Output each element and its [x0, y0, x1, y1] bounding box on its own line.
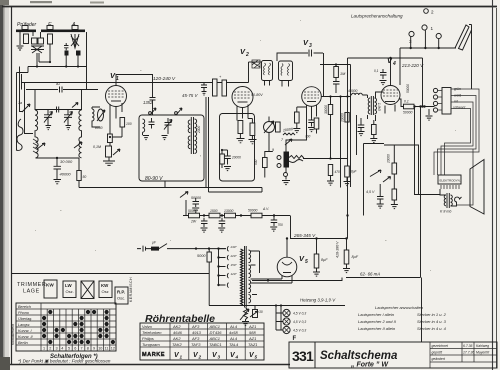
svg-text:Mayerhfr: Mayerhfr	[476, 351, 490, 355]
svg-text:9: 9	[272, 148, 274, 152]
ground inside box 1	[143, 136, 149, 140]
tube V5	[277, 257, 297, 277]
svg-text:Osc.: Osc.	[117, 296, 125, 301]
svg-text:0,1: 0,1	[404, 100, 409, 104]
capacitor V3 pin	[308, 118, 315, 126]
wire V4 plate to top line	[390, 58, 392, 86]
wire long vertical a	[347, 65, 349, 239]
resistor 13000	[225, 213, 236, 218]
title block small table	[430, 342, 497, 368]
svg-text:6: 6	[74, 347, 76, 351]
svg-text:988: 988	[249, 330, 256, 335]
svg-text:1352: 1352	[143, 100, 153, 105]
resistor V2a	[238, 121, 243, 134]
antenna coupling coil	[16, 119, 23, 150]
ground V3 pin	[308, 128, 315, 132]
wire speaker cable 1	[434, 89, 479, 175]
table row labels	[18, 305, 34, 345]
svg-text:213-220 V: 213-220 V	[401, 63, 424, 68]
IF transformer right coils	[195, 119, 197, 153]
ground under V1 stack	[103, 161, 115, 165]
bottom link wire	[36, 158, 80, 166]
wire V4 pins	[385, 105, 395, 114]
svg-text:DT436: DT436	[210, 330, 223, 335]
svg-text:F: F	[293, 336, 297, 342]
IF can 1	[262, 61, 273, 81]
wire long vertical b	[350, 65, 352, 188]
resistor 50	[77, 171, 81, 181]
fuse cartridge E1	[24, 34, 29, 44]
svg-text:LAGE: LAGE	[23, 289, 40, 295]
wire box bottom stub	[164, 181, 166, 188]
wire transformer to V4	[368, 92, 384, 121]
electrolytic small	[345, 166, 350, 177]
svg-text:410-380 V: 410-380 V	[336, 241, 340, 258]
trimmer capacitor 1	[44, 110, 53, 130]
ground tuning	[54, 175, 62, 184]
transformer secondary winding	[249, 250, 251, 303]
svg-text:ABC1: ABC1	[209, 324, 220, 329]
link wire	[35, 109, 82, 111]
potentiometer circle	[264, 117, 275, 138]
coil under V1	[92, 107, 100, 127]
heater bus	[209, 305, 345, 307]
svg-text:Kurzw. II: Kurzw. II	[18, 335, 34, 339]
contact dots row2	[42, 316, 109, 320]
resistor mid b	[372, 125, 377, 135]
switch arrow mid	[285, 139, 292, 145]
tube table MARKE row	[142, 352, 258, 360]
ground inside box 2	[162, 136, 168, 140]
wire L corner mid	[364, 144, 419, 216]
svg-text:120-240 V: 120-240 V	[153, 76, 176, 82]
capacitor bottom	[54, 166, 62, 175]
speaker magnet box	[438, 175, 461, 189]
corner smudge top-left	[0, 0, 9, 5]
svg-text:4646: 4646	[173, 330, 183, 335]
resistor 20000 right	[392, 163, 397, 174]
switch oval M	[95, 109, 105, 130]
resistor 20000 on anode line	[345, 113, 349, 123]
resistor 100 under V1	[120, 118, 125, 128]
choke coil	[352, 93, 363, 95]
svg-text:5: 5	[255, 355, 258, 360]
svg-text:TRIMMER: TRIMMER	[17, 282, 46, 288]
svg-text:Berlin: Berlin	[18, 341, 28, 345]
resistor mains	[207, 252, 211, 262]
svg-text:5: 5	[68, 347, 70, 351]
capacitor block 1	[65, 51, 69, 56]
junction dots mains	[195, 247, 197, 249]
resistor stack b	[106, 146, 112, 157]
svg-text:a1: a1	[56, 82, 60, 86]
svg-text:ELEKTRODYN.: ELEKTRODYN.	[440, 179, 461, 183]
capacitor V3 coupling	[309, 50, 312, 57]
transformer core	[245, 246, 247, 308]
ground mid b	[370, 139, 377, 143]
chassis bottom wire	[12, 273, 210, 275]
oscillator box	[220, 114, 255, 182]
detector switch arrow	[180, 192, 188, 198]
svg-text:8μF: 8μF	[321, 258, 328, 262]
capacitor small	[64, 43, 69, 50]
pilot lamp 1	[283, 309, 306, 316]
resistor V4 output	[404, 104, 415, 109]
capacitor divider 1	[201, 218, 208, 227]
HT line 265-345V	[291, 216, 347, 239]
svg-text:4913: 4913	[192, 330, 202, 335]
ground V4 grid	[380, 81, 387, 85]
svg-text:geprüft: geprüft	[432, 351, 444, 355]
svg-text:Osz: Osz	[102, 289, 109, 294]
jack 3	[409, 31, 414, 36]
svg-text:3: 3	[56, 347, 58, 351]
svg-text:*) Der Punkt ▣ bedeutet : Fede: *) Der Punkt ▣ bedeutet : Feder geschlos…	[18, 359, 111, 364]
svg-text:331: 331	[292, 348, 314, 364]
primary tap arcs	[219, 245, 238, 288]
svg-text:Lautsprecher 2 und II: Lautsprecher 2 und II	[358, 319, 397, 324]
svg-text:Tungsram: Tungsram	[142, 342, 160, 347]
mains plug	[137, 246, 150, 252]
capacitor osc lower	[224, 156, 231, 165]
svg-text:4,5 V: 4,5 V	[366, 190, 375, 194]
svg-text:1: 1	[43, 347, 45, 351]
plug pins	[433, 88, 442, 112]
svg-text:17.7.36: 17.7.36	[463, 351, 474, 355]
junction dot	[109, 136, 111, 138]
svg-text:6.7.36: 6.7.36	[463, 344, 473, 348]
contact dots row3	[42, 322, 109, 326]
ground electrolytic 1	[313, 272, 320, 276]
capacitor det	[193, 198, 200, 207]
svg-text:45-75 V: 45-75 V	[182, 93, 198, 98]
divider chain wire	[183, 200, 290, 216]
svg-text:TAL4: TAL4	[229, 342, 239, 347]
capacitor inside box	[149, 118, 155, 129]
svg-text:3: 3	[309, 43, 312, 49]
trimmer box KW Osz	[99, 281, 112, 298]
svg-text:4: 4	[61, 347, 63, 351]
resistor osc lower	[220, 154, 225, 164]
svg-text:1a: 1a	[18, 101, 22, 105]
ground osc lower	[224, 167, 231, 171]
svg-text:50000: 50000	[188, 209, 198, 213]
svg-text:Lautsprecheranschaltung: Lautsprecheranschaltung	[351, 14, 403, 19]
svg-text:AF3: AF3	[191, 336, 200, 341]
resistor V3 screen	[314, 118, 319, 129]
svg-text:Lautsprecher II allein: Lautsprecher II allein	[358, 326, 396, 331]
capacitor block 2	[76, 51, 81, 56]
svg-text:50-80V: 50-80V	[251, 93, 263, 97]
switch contact C2	[150, 108, 156, 115]
ground divider 1	[201, 228, 208, 232]
variable capacitor inside box	[164, 118, 172, 134]
border frame right inner	[496, 8, 498, 368]
junction dots jacks	[424, 47, 426, 49]
capacitor on V1 link	[150, 98, 156, 116]
electrolytic 8uF no1	[314, 254, 319, 268]
svg-text:0,1: 0,1	[374, 69, 379, 73]
svg-text:470: 470	[335, 170, 341, 174]
svg-text:30 000: 30 000	[60, 159, 73, 164]
wire jacks	[400, 30, 456, 85]
border frame left	[11, 6, 13, 365]
speaker cone	[470, 160, 484, 215]
svg-text:geändert: geändert	[432, 357, 446, 361]
svg-text:KERAMISCH: KERAMISCH	[129, 277, 133, 302]
junction dots terminal area	[36, 61, 79, 68]
trimmer box crossed	[81, 281, 94, 299]
iron core coil L3	[33, 137, 38, 158]
terminal bar left	[16, 30, 36, 33]
IF transformer left coils	[188, 120, 190, 149]
svg-text:Langw.: Langw.	[18, 323, 30, 327]
resistor 50 right	[392, 189, 397, 200]
svg-text:50: 50	[83, 175, 87, 179]
wire bus to V2 top	[238, 62, 249, 83]
resistor 500	[263, 158, 268, 168]
divider pot left	[250, 306, 263, 318]
ground antenna	[17, 32, 24, 50]
border frame right	[492, 0, 494, 370]
svg-text:150°: 150°	[231, 263, 238, 267]
wire resistor to AVC bus	[78, 158, 80, 188]
wire plate line	[320, 64, 351, 66]
wire choke	[351, 95, 368, 98]
svg-text:4,5 V 0,3: 4,5 V 0,3	[293, 320, 306, 324]
svg-text:MARKE: MARKE	[142, 352, 165, 358]
svg-text:8μF: 8μF	[352, 255, 359, 259]
resistor 30000	[330, 97, 332, 159]
border frame top	[2, 6, 497, 8]
resistor 1M	[334, 67, 339, 78]
svg-text:11: 11	[105, 347, 109, 351]
ground mid right a	[377, 204, 384, 208]
resistor 470k	[328, 165, 332, 176]
svg-text:AZ1: AZ1	[248, 324, 256, 329]
svg-text:4x58: 4x58	[229, 330, 238, 335]
svg-text:9: 9	[93, 347, 95, 351]
svg-text:700: 700	[278, 223, 284, 227]
wire lower bus	[209, 188, 263, 193]
wire can pins	[265, 81, 289, 87]
mains fuse	[151, 241, 167, 251]
wire V5 anode	[286, 239, 288, 258]
svg-text:2: 2	[245, 52, 249, 58]
ground small under electrolytic	[344, 177, 351, 186]
svg-text:AK2: AK2	[172, 336, 181, 341]
wire V2 pins	[237, 105, 248, 121]
scan speckles	[35, 20, 456, 301]
long wire right loop	[346, 107, 421, 278]
antenna coil bowtie	[71, 34, 79, 48]
svg-text:13000: 13000	[224, 209, 234, 213]
ground volume pot	[282, 177, 290, 185]
svg-text:2: 2	[431, 10, 434, 15]
ground divider 2	[218, 228, 225, 232]
speaker instruction text	[358, 305, 447, 331]
svg-text:Philips: Philips	[142, 336, 154, 341]
svg-text:4,5 V 0,3: 4,5 V 0,3	[293, 312, 306, 316]
svg-text:265-345 V: 265-345 V	[293, 233, 316, 238]
ground det	[192, 208, 199, 212]
svg-text:3: 3	[218, 355, 221, 360]
wire pot to divider	[303, 158, 347, 160]
tuning box top wire	[26, 89, 98, 91]
svg-text:20000: 20000	[231, 156, 241, 160]
svg-text:4,5 V 0,3: 4,5 V 0,3	[293, 329, 306, 333]
trimmer box RP Osc	[115, 287, 128, 304]
IF output transformer	[368, 96, 381, 115]
trimmer box LW Osz	[63, 281, 76, 298]
page fold line left	[7, 0, 9, 370]
svg-text:AL4: AL4	[229, 336, 238, 341]
capacitor under 1M	[333, 82, 340, 94]
svg-text:700: 700	[305, 135, 311, 139]
volume potentiometer	[272, 148, 304, 177]
svg-text:1: 1	[431, 26, 434, 31]
mains bus 120-240V wire	[22, 82, 239, 84]
wire V1 pins	[110, 103, 122, 119]
svg-text:5000: 5000	[197, 254, 206, 258]
transformer primary winding	[241, 249, 244, 305]
svg-text:AK2: AK2	[172, 324, 181, 329]
svg-text:100: 100	[126, 122, 132, 126]
capacitor a1	[60, 87, 63, 93]
svg-text:7: 7	[81, 347, 83, 351]
svg-text:„ Forte ” W: „ Forte ” W	[350, 362, 389, 369]
mains wire	[150, 248, 227, 250]
jack 2 top	[424, 9, 429, 14]
wire V2 to can	[249, 61, 262, 63]
contact dots row6	[48, 340, 115, 344]
svg-text:Lautsprecher anzuschalten: Lautsprecher anzuschalten	[375, 305, 424, 310]
svg-text:ABC1: ABC1	[209, 336, 220, 341]
capacitor V4 grid	[380, 69, 387, 79]
hum potentiometer	[240, 308, 249, 322]
resistor right of pot	[276, 122, 281, 132]
bottom corner smudge	[0, 357, 10, 370]
wire V4 plate top line	[348, 58, 423, 107]
ground V4 cathode	[426, 109, 433, 120]
junction dots	[419, 105, 421, 107]
svg-text:Bereich: Bereich	[18, 305, 31, 309]
svg-text:220°: 220°	[230, 254, 238, 258]
page left edge shading	[0, 0, 3, 370]
IF box	[139, 115, 204, 181]
svg-text:Stecker in 4 u. 4: Stecker in 4 u. 4	[417, 326, 447, 331]
ground V2a	[237, 139, 245, 143]
wire field coil	[469, 25, 472, 90]
tuning coil L2	[79, 90, 82, 138]
potentiometer arrow 4,5V	[370, 170, 381, 177]
svg-text:1: 1	[180, 355, 183, 360]
svg-text:LW: LW	[65, 283, 72, 288]
wire plate to jack bus	[399, 99, 435, 107]
capacitor divider 2	[219, 218, 226, 227]
terminal bar right	[41, 30, 85, 33]
heater wires V5	[251, 276, 293, 284]
svg-text:500: 500	[254, 159, 258, 165]
title block frame	[289, 342, 497, 368]
svg-text:50000: 50000	[248, 209, 258, 213]
svg-text:AL4: AL4	[229, 324, 238, 329]
ground 470	[327, 181, 334, 185]
resistor V3 cathode	[295, 112, 300, 123]
jack 1	[422, 25, 427, 30]
svg-text:TAZ1: TAZ1	[248, 342, 257, 347]
ground V2b	[249, 140, 257, 144]
svg-text:10: 10	[98, 347, 102, 351]
svg-text:50000: 50000	[403, 111, 413, 115]
lightning arrester	[31, 38, 44, 53]
capacitor mid	[57, 107, 59, 113]
svg-text:8000: 8000	[95, 126, 103, 130]
svg-text:AZ1: AZ1	[248, 336, 256, 341]
wire output transformer feed	[415, 107, 441, 195]
trimmer table frame	[16, 303, 116, 351]
svg-text:1M: 1M	[340, 72, 346, 76]
wire V3 to volume pot	[286, 118, 307, 152]
switch arrow right	[383, 177, 391, 183]
svg-text:gezeichnet: gezeichnet	[432, 344, 449, 348]
svg-text:AF3: AF3	[191, 324, 200, 329]
svg-text:8: 8	[87, 347, 89, 351]
svg-text:Phono: Phono	[18, 311, 29, 315]
contact dots row1	[48, 310, 108, 314]
svg-text:0,1M: 0,1M	[93, 145, 101, 149]
svg-text:KW: KW	[46, 283, 54, 288]
ground mid right b	[391, 200, 398, 209]
wire screen vertical	[340, 97, 342, 188]
capacitor divider 3	[271, 216, 278, 227]
junction dots divider	[203, 214, 275, 216]
pilot lamp 3	[283, 326, 306, 333]
tuning coil L1	[35, 90, 38, 138]
svg-text:62- 66 mA: 62- 66 mA	[360, 272, 380, 277]
svg-text:K 8 mb: K 8 mb	[440, 210, 451, 214]
ground divider 3	[270, 227, 277, 231]
tube V3	[302, 87, 322, 107]
secondary tap wires	[251, 251, 260, 295]
capacitor mid a	[358, 118, 365, 132]
resistor V2b	[250, 123, 255, 136]
svg-text:240°: 240°	[230, 245, 238, 249]
switch arrow	[113, 149, 120, 155]
svg-text:KW: KW	[101, 283, 109, 288]
svg-text:Stecker in 4 u. 3: Stecker in 4 u. 3	[417, 319, 447, 324]
wire long vertical c	[356, 115, 358, 155]
wire speaker bundle down	[457, 149, 473, 205]
coil L4	[79, 137, 82, 158]
svg-text:Kahlweg: Kahlweg	[476, 344, 489, 348]
ground V3 cathode	[293, 129, 300, 133]
svg-text:Überlag.: Überlag.	[18, 317, 32, 321]
svg-text:TAK2: TAK2	[172, 342, 182, 347]
svg-text:2: 2	[49, 347, 51, 351]
tube V4	[381, 86, 400, 105]
svg-text:4: 4	[235, 355, 239, 360]
capacitor with ground mid right	[377, 184, 384, 204]
tube table frame	[140, 323, 264, 360]
svg-text:50000: 50000	[406, 84, 410, 93]
ground electrolytic 2	[343, 269, 350, 273]
svg-text:schwarz: schwarz	[453, 106, 466, 110]
switch 5	[72, 103, 78, 108]
svg-text:Osz.: Osz.	[66, 289, 74, 294]
svg-text:Δ.V.: Δ.V.	[262, 207, 269, 211]
svg-text:2: 2	[198, 355, 202, 360]
